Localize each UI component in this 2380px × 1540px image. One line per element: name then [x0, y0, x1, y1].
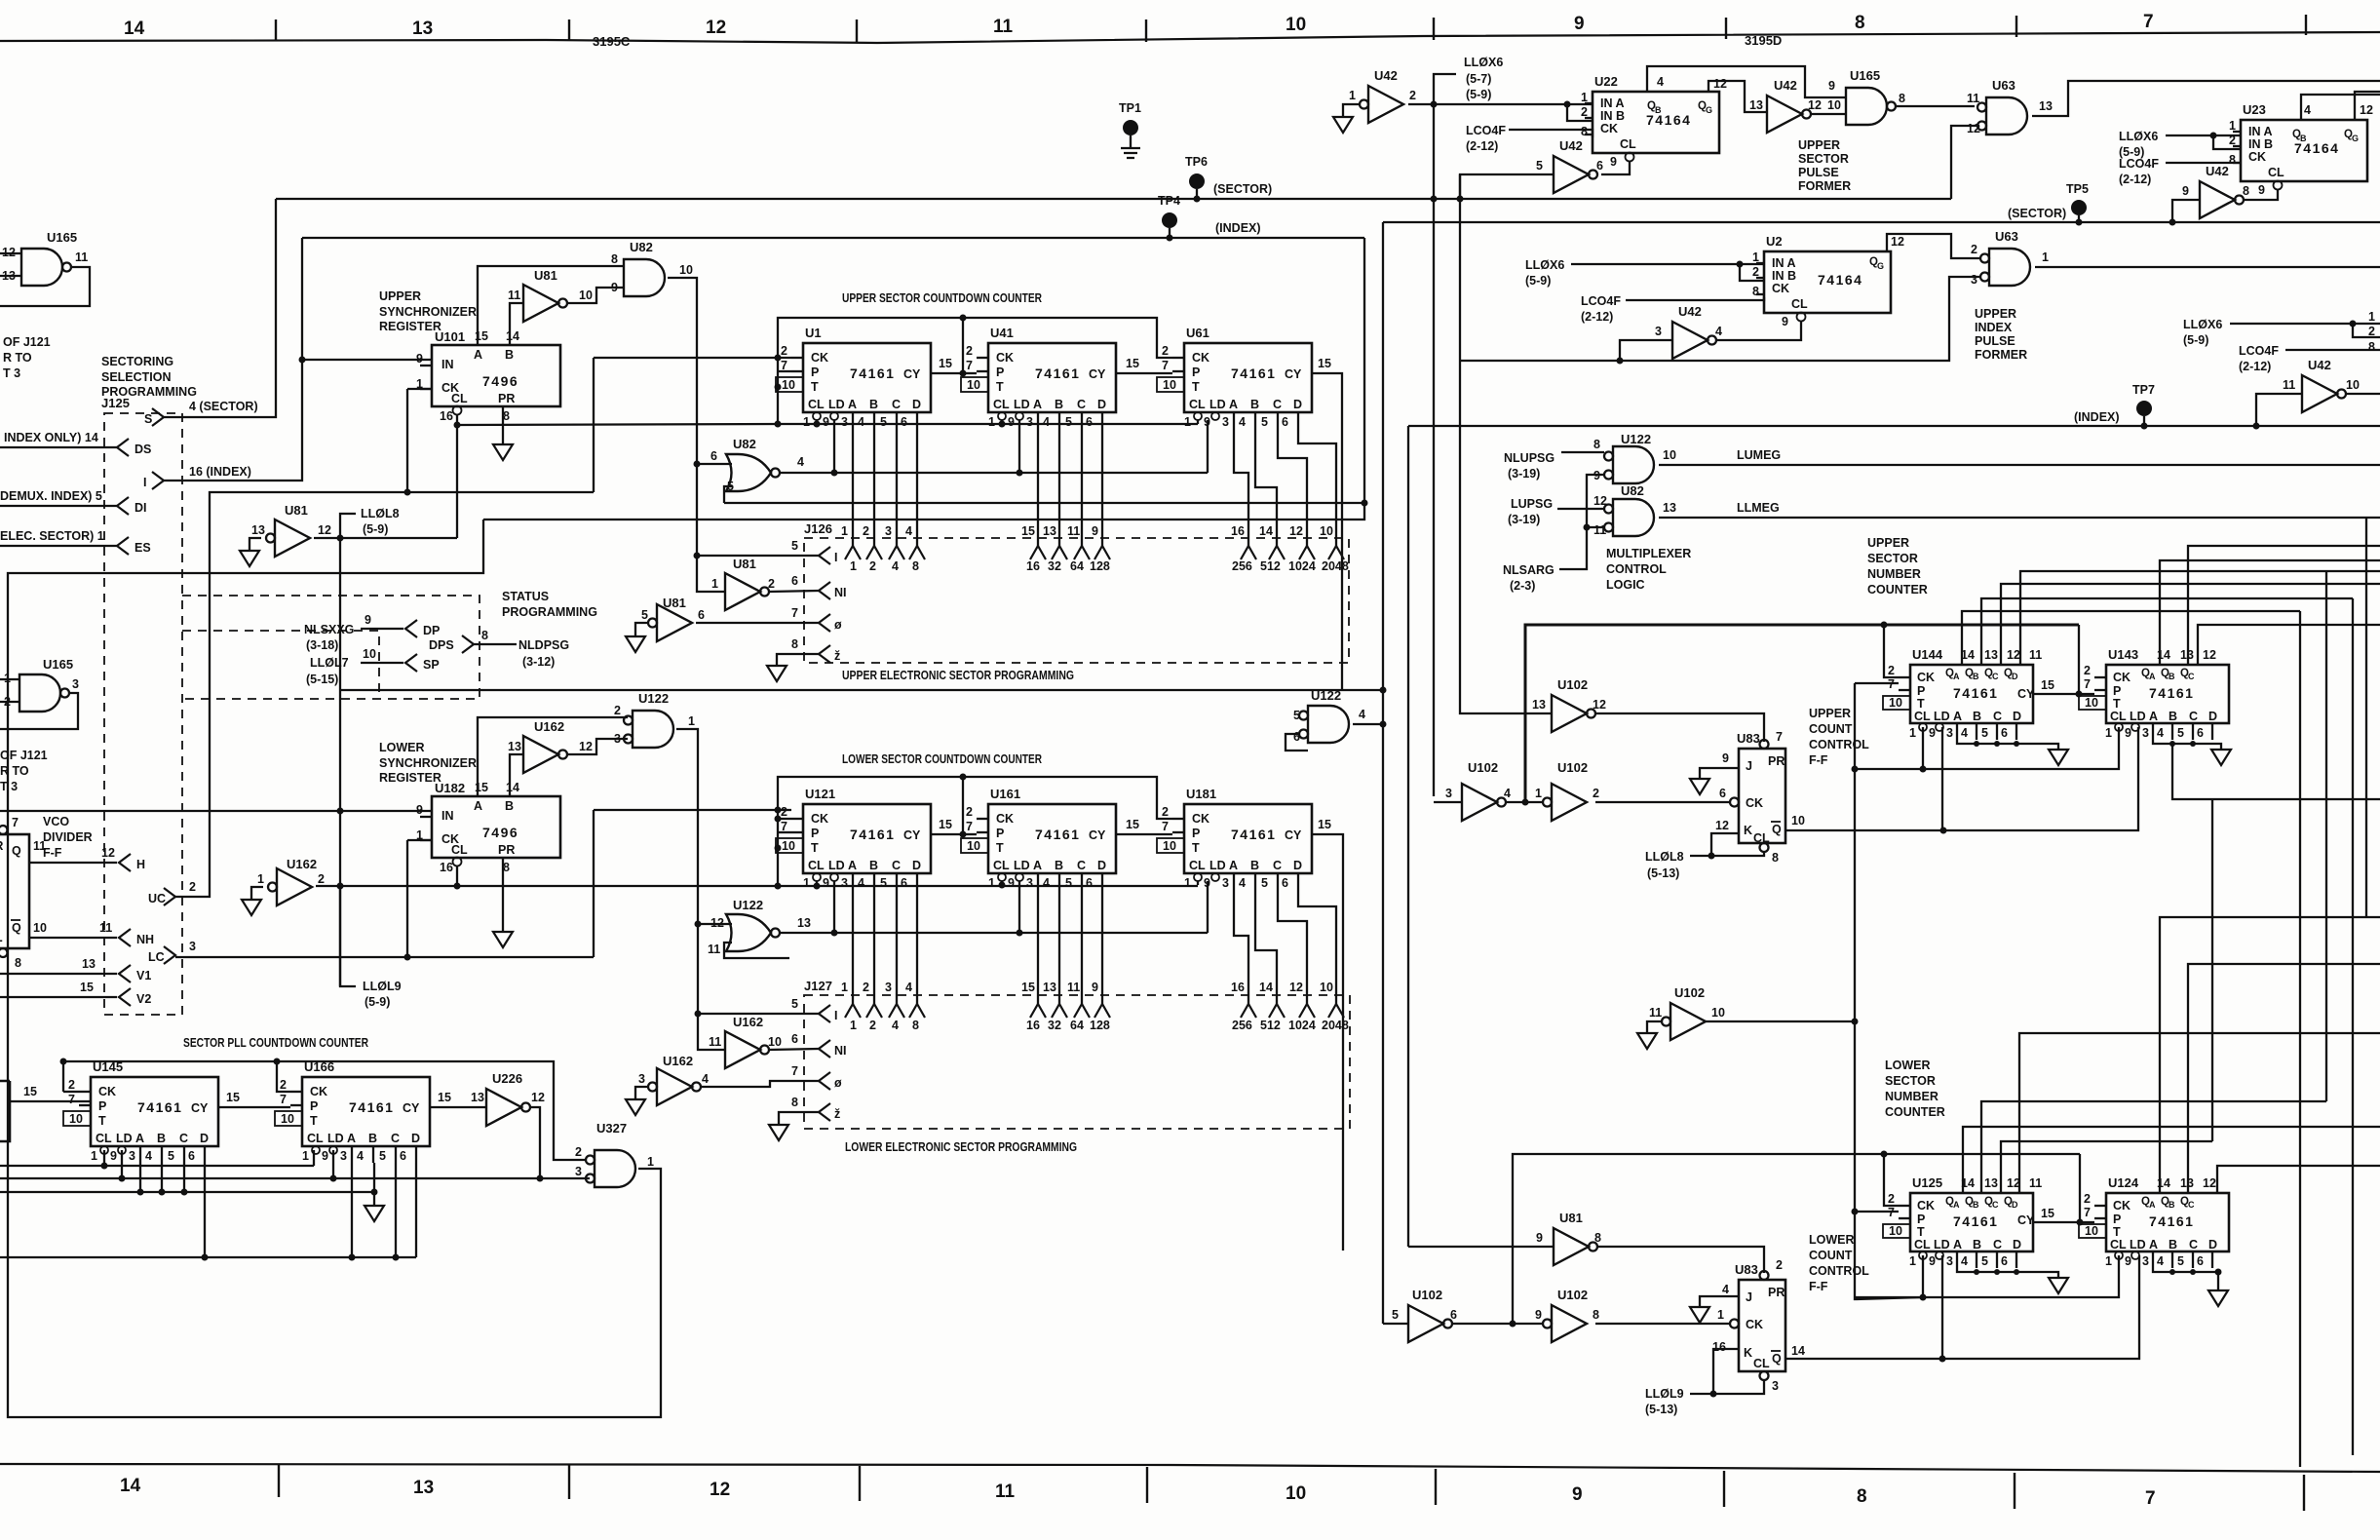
svg-text:12: 12: [1715, 819, 1729, 832]
svg-text:U327: U327: [596, 1121, 627, 1136]
svg-text:ø: ø: [834, 618, 842, 632]
wire U121 P stub: [778, 831, 791, 833]
svg-text:1: 1: [841, 524, 848, 538]
svg-text:12: 12: [2007, 648, 2020, 662]
wire U42-8 to U23 CL: [2244, 190, 2278, 200]
inverter U81 (11 to 10): [523, 285, 567, 322]
svg-text:13: 13: [82, 957, 96, 971]
svg-text:9: 9: [365, 613, 371, 627]
wire U144 CL LD down: [1923, 727, 1942, 830]
svg-text:3: 3: [885, 981, 892, 994]
svg-text:15: 15: [2041, 678, 2054, 692]
wire S to sector line: [164, 199, 276, 417]
wire U121 CK stub: [778, 818, 791, 820]
svg-text:B: B: [2300, 134, 2307, 143]
text UPPER SECTOR PULSE FORMER: [1798, 138, 1851, 193]
wire ES: [0, 545, 117, 547]
svg-text:11: 11: [75, 250, 88, 264]
svg-text:TP4: TP4: [1158, 194, 1180, 208]
chevron J127 NI: [819, 1040, 830, 1058]
svg-text:DIVIDER: DIVIDER: [43, 830, 93, 844]
chevron J126 I: [819, 547, 830, 564]
svg-text:15: 15: [1021, 524, 1035, 538]
wire U63-13 out to right edge: [2032, 81, 2380, 116]
svg-text:LLØX6: LLØX6: [2119, 130, 2158, 143]
svg-text:13: 13: [251, 523, 265, 537]
wire LCO4F to U23 CK: [2166, 162, 2241, 164]
wire LL0X6 to U23 IN A: [2166, 135, 2241, 136]
text LOWER COUNT CONTROL F-F: [1809, 1233, 1869, 1293]
wire junction up to h641: [1525, 625, 2079, 802]
svg-text:12: 12: [1808, 98, 1822, 112]
svg-text:12: 12: [2203, 648, 2216, 662]
svg-text:11: 11: [2029, 1176, 2042, 1190]
svg-text:12: 12: [2360, 103, 2373, 117]
svg-text:(INDEX): (INDEX): [1215, 221, 1261, 235]
svg-text:LOWER SECTOR COUNTDOWN COUNTER: LOWER SECTOR COUNTDOWN COUNTER: [842, 751, 1042, 766]
svg-text:4: 4: [1715, 325, 1722, 338]
svg-text:(2-12): (2-12): [2119, 173, 2151, 186]
svg-text:3: 3: [1772, 1379, 1779, 1393]
wire U125 CL LD down: [1923, 1255, 1942, 1359]
wire v1498: [1459, 174, 1461, 704]
svg-text:8: 8: [1594, 1231, 1601, 1245]
svg-text:13: 13: [1749, 98, 1763, 112]
svg-text:LOWER: LOWER: [1809, 1233, 1855, 1247]
svg-text:ž: ž: [834, 649, 840, 663]
text VCO DIVIDER F-F: [43, 815, 93, 860]
svg-text:2: 2: [575, 1145, 582, 1159]
svg-text:4 (SECTOR): 4 (SECTOR): [189, 400, 258, 413]
svg-text:9: 9: [1536, 1231, 1543, 1245]
wire into U122-11: [724, 943, 789, 958]
wire U144 QA-QD up to bus: [1962, 611, 2300, 665]
svg-text:8: 8: [791, 637, 798, 651]
svg-text:CK: CK: [1746, 1318, 1763, 1331]
counter U124 74161: [2079, 1175, 2229, 1268]
wire into U102-13: [1460, 704, 1552, 713]
svg-text:14: 14: [1259, 981, 1273, 994]
counter U41 74161: [961, 343, 1116, 429]
wire U182 IN long line from left edge: [0, 810, 432, 812]
wire U81-2 to NI: [769, 591, 819, 592]
wire U143 QA-QC up to bus: [2160, 560, 2380, 665]
svg-text:13: 13: [1532, 698, 1546, 712]
svg-text:16 (INDEX): 16 (INDEX): [189, 465, 251, 479]
wire into U102-3 from v1471: [1434, 801, 1462, 803]
svg-text:15: 15: [80, 981, 94, 994]
wire U182 B up to U162 in: [510, 754, 523, 796]
svg-text:INDEX: INDEX: [1975, 321, 2013, 334]
svg-text:11: 11: [1067, 524, 1080, 538]
wire U42-4 to U2 CL: [1716, 322, 1801, 340]
svg-text:12: 12: [101, 846, 115, 860]
svg-text:U102: U102: [1557, 1288, 1588, 1302]
svg-text:15: 15: [1318, 357, 1331, 370]
wire U42-6 to U22 CL bubble: [1601, 162, 1630, 174]
svg-text:V1: V1: [136, 969, 151, 982]
counter U145 74161: [63, 1077, 218, 1163]
wire U102-6 to U102-9: [1452, 1323, 1543, 1325]
svg-text:TP6: TP6: [1185, 155, 1208, 169]
inverter U102 (5 to 6): [1408, 1305, 1452, 1342]
svg-text:U42: U42: [1559, 138, 1583, 153]
svg-text:512: 512: [1260, 1019, 1281, 1032]
wire U1 P T stubs: [776, 371, 791, 387]
svg-text:U125: U125: [1912, 1175, 1942, 1190]
wire U1 ABCD drops to J126: [853, 429, 917, 546]
wire U121 CY to U161: [931, 777, 963, 834]
svg-text:13: 13: [508, 740, 521, 753]
svg-text:12: 12: [710, 1480, 730, 1500]
wire U181 ABCD drops to J127: [1234, 890, 1336, 1004]
signal LL0X6 right edge: [2183, 318, 2222, 347]
wire DS: [0, 446, 117, 448]
svg-text:R TO: R TO: [0, 764, 29, 778]
nor U82 (6,5 to 4): [726, 454, 780, 491]
svg-text:U82: U82: [733, 437, 756, 451]
signal LCO4F: [1466, 124, 1506, 153]
svg-text:2: 2: [863, 524, 869, 538]
wire LL0L7 to SP: [361, 662, 403, 664]
signal NLSXXG: [304, 623, 354, 652]
svg-text:REGISTER: REGISTER: [379, 320, 441, 333]
svg-text:LCO4F: LCO4F: [2239, 344, 2279, 358]
svg-text:U181: U181: [1186, 787, 1216, 801]
wire U83 J to ground: [1700, 1296, 1739, 1307]
svg-text:ž: ž: [834, 1107, 840, 1121]
svg-text:COUNT: COUNT: [1809, 722, 1853, 736]
note text OF J121 (lower): [0, 749, 48, 793]
svg-text:11: 11: [1649, 1006, 1662, 1020]
text UPPER INDEX PULSE FORMER: [1975, 307, 2027, 362]
top ruler ticks: [275, 19, 277, 41]
wire U23 QG pin12 up: [2355, 92, 2380, 120]
svg-text:12: 12: [318, 523, 331, 537]
wire U226-12 down to U327-3 line: [530, 1107, 540, 1178]
svg-text:8: 8: [1772, 851, 1779, 865]
wire h708: [340, 689, 1383, 691]
wire LL0L9 to U83 CL: [1690, 1380, 1764, 1394]
svg-text:NI: NI: [834, 1044, 847, 1058]
signal LCO4F for U23: [2119, 157, 2159, 186]
svg-text:13: 13: [797, 916, 811, 930]
svg-text:(SECTOR): (SECTOR): [2008, 207, 2066, 220]
svg-text:STATUS: STATUS: [502, 590, 549, 603]
signal LL0L8 (5-13): [1645, 850, 1684, 880]
wire U121 ABCD drops to J127: [853, 890, 917, 1004]
svg-text:7: 7: [2145, 1488, 2156, 1509]
ground at U81-13 input: [250, 538, 261, 551]
svg-text:11: 11: [995, 1482, 1016, 1502]
wire PLL LD line to U327-3: [0, 1177, 590, 1179]
svg-text:11: 11: [1967, 92, 1979, 105]
wire into U122-9: [1587, 475, 1604, 530]
wire U102-8 to U83 CK: [1595, 1323, 1730, 1325]
dashed status programming box: [182, 596, 480, 699]
svg-text:(INDEX): (INDEX): [2074, 410, 2120, 424]
svg-text:4: 4: [892, 559, 899, 573]
wire U2 QG pin12 to U63 pin2: [1887, 234, 1980, 258]
svg-text:1: 1: [841, 981, 848, 994]
J126 pin group 16..128: [1021, 524, 1110, 573]
svg-text:U42: U42: [2206, 164, 2229, 178]
wire U144 P T feed from v1903: [1855, 682, 1899, 684]
svg-text:5: 5: [791, 539, 798, 553]
inverter U102 (11 to 10): [1662, 1003, 1706, 1040]
wire U122-13 LD bus: [780, 932, 1208, 934]
text LOWER SECTOR NUMBER COUNTER: [1885, 1059, 1945, 1119]
chevron DP: [405, 620, 417, 637]
wire v1445: [1407, 426, 1409, 1247]
wire U102-2 to U83 CK: [1595, 801, 1730, 803]
svg-text:3: 3: [1445, 787, 1452, 800]
svg-text:U124: U124: [2108, 1175, 2139, 1190]
register U182 7496: [416, 781, 560, 874]
svg-text:U162: U162: [733, 1015, 763, 1029]
svg-text:2: 2: [1971, 243, 1977, 256]
svg-text:J: J: [1746, 759, 1752, 773]
svg-text:B: B: [1655, 105, 1662, 115]
wire into U42-3: [1620, 340, 1672, 361]
chevron J127 I: [819, 1005, 830, 1022]
svg-text:7: 7: [2143, 12, 2154, 32]
svg-text:PR: PR: [1768, 1286, 1785, 1299]
svg-text:8: 8: [1593, 1308, 1599, 1322]
svg-text:UPPER ELECTRONIC SECTOR PROGRA: UPPER ELECTRONIC SECTOR PROGRAMMING: [842, 668, 1074, 682]
svg-text:U226: U226: [492, 1071, 522, 1086]
counter U121 74161: [776, 804, 931, 890]
ground at U42-1 input: [1343, 104, 1360, 117]
svg-text:COUNTER: COUNTER: [1867, 583, 1928, 597]
wire partial CY to U145: [10, 1100, 91, 1102]
svg-text:DEMUX. INDEX) 5: DEMUX. INDEX) 5: [0, 489, 102, 503]
chevron J126 0: [819, 614, 830, 632]
chevron H: [119, 854, 131, 871]
wire into U82-6 from I column: [697, 463, 732, 465]
signal LL0L8 tee: [340, 514, 356, 538]
svg-text:15: 15: [939, 357, 952, 370]
svg-text:U42: U42: [2308, 358, 2331, 372]
svg-text:U83: U83: [1735, 1262, 1758, 1277]
signal NLUPSG: [1504, 451, 1555, 481]
wire LCO4F to U22 CK: [1509, 130, 1593, 137]
svg-text:U102: U102: [1557, 677, 1588, 692]
svg-text:2: 2: [318, 872, 325, 886]
register U101 7496: [416, 329, 560, 423]
svg-text:UPPER: UPPER: [1798, 138, 1840, 152]
svg-text:Q: Q: [1772, 823, 1782, 836]
svg-text:U102: U102: [1412, 1288, 1442, 1302]
wire U81-10 to U82 pin9: [567, 288, 624, 303]
wire U125 QA-QD up to bus: [1963, 1127, 2380, 1193]
nand U63 (11,12 to 13): [1977, 97, 2027, 135]
svg-text:(5-9): (5-9): [365, 995, 390, 1009]
wire U124 ABCD to ground: [2153, 1268, 2218, 1290]
nand U165 (9,10 to 8): [1846, 88, 1896, 125]
wire U102-12 to U83 PR: [1595, 713, 1764, 742]
svg-text:DP: DP: [423, 624, 440, 637]
svg-text:LOWER ELECTRONIC SECTOR PROGRA: LOWER ELECTRONIC SECTOR PROGRAMMING: [845, 1139, 1077, 1154]
J126 pin group 1,2,4,8: [841, 524, 925, 573]
svg-text:12: 12: [531, 1091, 545, 1104]
svg-text:LLØL8: LLØL8: [361, 507, 400, 520]
wire (INDEX) main line: [302, 237, 1364, 239]
inverter U42 (13 to 12): [1767, 96, 1811, 133]
svg-text:G: G: [1877, 261, 1884, 271]
svg-text:T 3: T 3: [3, 366, 20, 380]
svg-text:13: 13: [2039, 99, 2053, 113]
signal LCO4F for U2: [1581, 294, 1621, 324]
ground at U162-3 input: [635, 1087, 648, 1099]
svg-text:S: S: [144, 412, 152, 426]
inverter U102 (1 to 2): [1543, 784, 1587, 821]
svg-text:9: 9: [611, 281, 618, 294]
svg-text:9: 9: [1092, 524, 1098, 538]
svg-text:U102: U102: [1468, 760, 1498, 775]
ground below U101 PR: [502, 406, 504, 444]
svg-text:12: 12: [1713, 77, 1727, 91]
svg-text:7: 7: [12, 816, 19, 829]
svg-text:16: 16: [1026, 1019, 1040, 1032]
svg-text:8: 8: [2368, 340, 2375, 354]
svg-text:FORMER: FORMER: [1975, 348, 2027, 362]
inverter U42 (11 to 10) bottom right of index B: [2302, 375, 2346, 412]
svg-text:13: 13: [1984, 1176, 1998, 1190]
wire NLSXXG to DP: [361, 628, 403, 630]
svg-text:5: 5: [1392, 1308, 1399, 1322]
svg-text:256: 256: [1232, 1019, 1252, 1032]
wire U162-10 to NI: [769, 1049, 819, 1050]
wire CK feed from index buffer: [594, 357, 791, 359]
svg-text:10: 10: [1320, 524, 1333, 538]
test point TP4: [1162, 212, 1177, 228]
svg-text:ELEC. SECTOR) 1: ELEC. SECTOR) 1: [0, 529, 104, 543]
wire U162-12 to U122 pin3: [567, 739, 628, 754]
svg-text:2: 2: [869, 559, 876, 573]
signal NLDPSG: [518, 638, 569, 669]
svg-text:12: 12: [1967, 122, 1980, 135]
svg-text:2: 2: [869, 1019, 876, 1032]
svg-text:CL: CL: [1753, 1357, 1770, 1370]
wire U122-10 LUMEG out: [1659, 464, 2380, 466]
wire PLL ABC line with ground: [0, 1191, 374, 1193]
wire into U122-12: [698, 923, 732, 925]
signal LL0L7: [306, 656, 349, 686]
signal LL0X6 tee: [1434, 74, 1456, 104]
svg-text:15: 15: [438, 1091, 451, 1104]
svg-text:LOWER: LOWER: [379, 741, 425, 754]
shift register U23 74164: [2229, 119, 2367, 197]
svg-text:G: G: [1706, 105, 1712, 115]
wire U143 ABCD to ground: [2153, 740, 2221, 750]
wire U81-12 output to CL riser: [314, 537, 457, 539]
svg-text:4: 4: [1657, 75, 1664, 89]
svg-text:U122: U122: [638, 691, 669, 706]
svg-text:8: 8: [1855, 13, 1865, 33]
svg-text:U2: U2: [1766, 234, 1783, 249]
svg-text:12: 12: [579, 740, 593, 753]
svg-text:U81: U81: [733, 557, 756, 571]
svg-text:9: 9: [1828, 79, 1835, 93]
svg-text:8: 8: [611, 252, 618, 266]
wire U102-4 to U102-1: [1506, 801, 1543, 803]
nand U165 (top-left partial, pins 12,13 -> 11): [0, 230, 88, 286]
wire sector line B (right): [1383, 221, 2380, 223]
svg-text:SECTORING: SECTORING: [101, 355, 173, 368]
svg-text:U81: U81: [663, 596, 686, 610]
svg-text:11: 11: [708, 943, 720, 956]
svg-text:2: 2: [2368, 325, 2375, 338]
wire PLL D line: [0, 1256, 416, 1258]
counter partial at left edge: [0, 1081, 10, 1141]
svg-text:11: 11: [99, 921, 112, 935]
svg-text:10: 10: [579, 289, 593, 302]
svg-text:U143: U143: [2108, 647, 2138, 662]
svg-text:K: K: [1744, 1346, 1752, 1360]
svg-text:16: 16: [1231, 981, 1245, 994]
wire v1419: [1382, 222, 1384, 1324]
svg-text:(3-19): (3-19): [1508, 467, 1540, 481]
wire U83 K to LL0L9 line: [1713, 1349, 1739, 1394]
svg-text:13: 13: [413, 1478, 434, 1498]
wire U82-4 LD bus: [780, 472, 1208, 474]
svg-text:32: 32: [1048, 1019, 1061, 1032]
svg-text:12: 12: [1593, 698, 1606, 712]
svg-text:3: 3: [189, 940, 196, 953]
svg-text:CL: CL: [0, 931, 3, 944]
svg-text:3195D: 3195D: [1745, 33, 1782, 48]
svg-text:10: 10: [1320, 981, 1333, 994]
svg-text:U101: U101: [435, 329, 465, 344]
wire index line B (right): [1408, 425, 2380, 427]
svg-text:I: I: [834, 1009, 837, 1022]
svg-text:7: 7: [1776, 730, 1783, 744]
svg-text:LLØL9: LLØL9: [1645, 1387, 1684, 1401]
and U122 (5,6 to 4) near index column: [1299, 706, 1349, 743]
wire LL0L8 vertical down to LL0L9 tee: [339, 538, 341, 986]
svg-text:3: 3: [638, 1072, 645, 1086]
svg-text:2048: 2048: [1322, 1019, 1349, 1032]
wire LUPSG to U82-12: [1557, 508, 1604, 510]
svg-text:OF J121: OF J121: [3, 335, 51, 349]
svg-text:10: 10: [33, 921, 47, 935]
svg-text:12: 12: [2203, 1176, 2216, 1190]
wire U144 CY to U143: [2033, 693, 2094, 695]
wire h641 down to U143 P: [2078, 625, 2080, 694]
counter U181 74161: [1157, 804, 1312, 890]
svg-text:I: I: [143, 476, 146, 489]
svg-text:PULSE: PULSE: [1975, 334, 2015, 348]
svg-text:LUMEG: LUMEG: [1737, 448, 1781, 462]
wire LL0X6 to U2 IN A: [1571, 263, 1764, 265]
wire U182 A up to U122 pin2: [478, 717, 628, 796]
wire U144 ABCD to ground: [1957, 740, 2058, 750]
test point TP5: [2071, 200, 2087, 215]
wire U42-2 to U22 IN A: [1408, 103, 1593, 105]
svg-text:CK: CK: [1746, 796, 1763, 810]
svg-text:U63: U63: [1995, 229, 2018, 244]
svg-text:LOGIC: LOGIC: [1606, 578, 1645, 592]
svg-text:10: 10: [1827, 98, 1841, 112]
svg-text:SP: SP: [423, 658, 440, 672]
svg-text:1: 1: [647, 1155, 654, 1169]
svg-text:9: 9: [1572, 1484, 1583, 1505]
svg-text:(5-9): (5-9): [1466, 88, 1491, 101]
svg-text:UPPER: UPPER: [1867, 536, 1909, 550]
svg-text:13: 13: [1984, 648, 1998, 662]
svg-text:U182: U182: [435, 781, 465, 795]
